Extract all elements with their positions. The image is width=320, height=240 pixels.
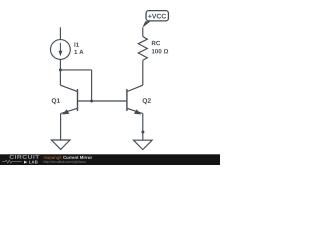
ground symbol for Q1 bbox=[51, 140, 70, 149]
transistor Q1 collector diagonal bbox=[60, 85, 77, 91]
label RC bbox=[152, 41, 160, 45]
CircuitLab logo text CIRCUIT bbox=[9, 155, 39, 159]
transistor Q2 base bar bbox=[126, 89, 128, 111]
label I1 bbox=[74, 43, 79, 47]
power flag +VCC tail bbox=[142, 21, 150, 28]
label +VCC bbox=[148, 14, 166, 19]
wire junction to corner right bbox=[60, 69, 91, 71]
label 100 ohm bbox=[152, 49, 168, 53]
credit schematic title bbox=[63, 156, 92, 159]
wire Q1 emitter to ground bbox=[60, 114, 62, 141]
footer watermark bar bbox=[0, 154, 220, 165]
ground symbol for Q2 bbox=[134, 140, 153, 149]
label Q1 bbox=[52, 98, 60, 104]
transistor Q1 emitter diagonal bbox=[61, 108, 78, 113]
wire top stub above I1 bbox=[59, 27, 61, 39]
credit url bbox=[44, 161, 86, 164]
label Q2 bbox=[143, 98, 151, 104]
credit author name bbox=[44, 156, 62, 160]
junction node on base wire bbox=[90, 100, 93, 103]
wire Q2 emitter to ground bbox=[142, 114, 144, 141]
CircuitLab logo squiggle bbox=[2, 160, 22, 163]
CircuitLab logo chevron bbox=[24, 161, 27, 164]
resistor RC zigzag bbox=[138, 37, 147, 61]
wire VCC flag to resistor bbox=[142, 28, 144, 37]
CircuitLab logo text LAB bbox=[29, 161, 37, 164]
transistor Q1 emitter arrowhead bbox=[62, 109, 69, 114]
current source I1 circle bbox=[51, 40, 71, 60]
junction node below I1 bbox=[59, 68, 62, 71]
label 1 A bbox=[74, 50, 83, 54]
junction node on Q2 emitter wire bbox=[141, 131, 144, 134]
transistor Q2 collector diagonal bbox=[127, 85, 143, 91]
wire junction down to Q1 collector bbox=[59, 70, 61, 85]
transistor Q1 base bar bbox=[77, 89, 79, 111]
wire I1 bottom to junction bbox=[59, 59, 61, 70]
transistor Q2 emitter arrowhead bbox=[134, 109, 141, 114]
wire resistor to Q2 collector bbox=[142, 61, 144, 86]
wire base Q1 to Q2 bbox=[78, 100, 127, 102]
power flag +VCC box bbox=[146, 11, 168, 21]
current source I1 arrow bbox=[60, 43, 61, 52]
wire corner down to base junction bbox=[91, 70, 93, 101]
transistor Q2 emitter diagonal bbox=[127, 108, 143, 113]
